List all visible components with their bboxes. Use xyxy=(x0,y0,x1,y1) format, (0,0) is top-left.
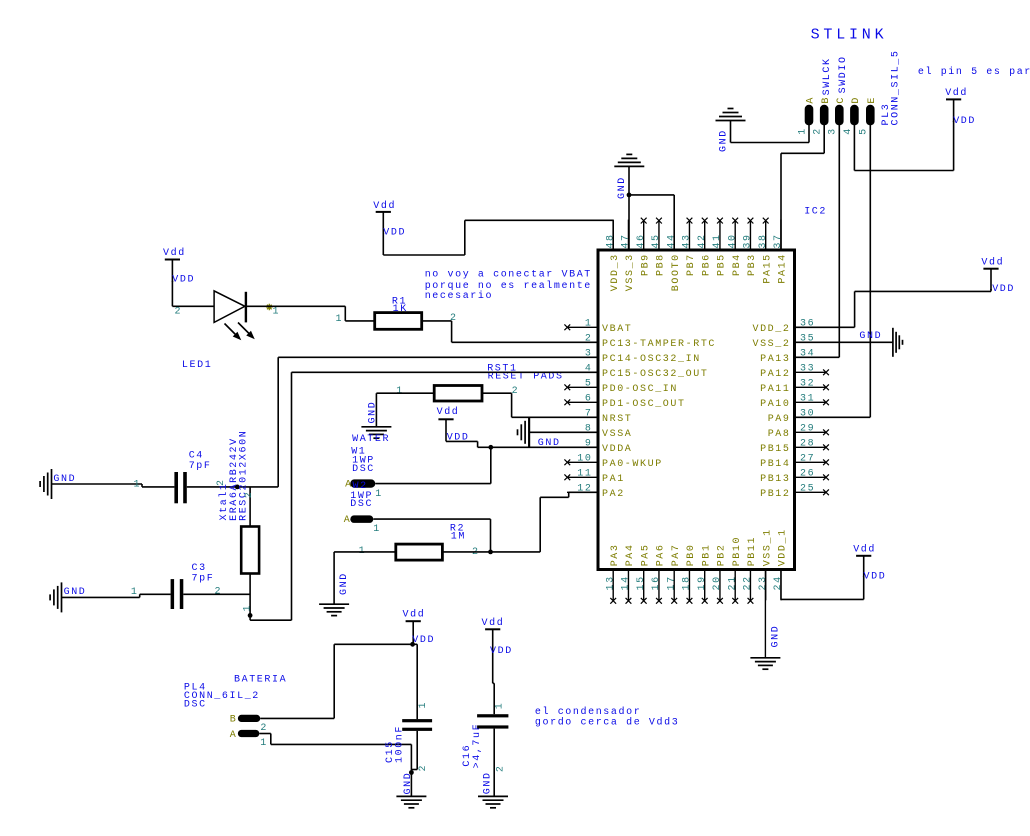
svg-text:RESC2012X60N: RESC2012X60N xyxy=(238,430,249,521)
svg-text:B: B xyxy=(821,96,832,104)
svg-text:PA8: PA8 xyxy=(768,429,791,440)
jumper W2 labels xyxy=(350,491,373,510)
wire Vdd node to C15 pin1 xyxy=(413,644,418,719)
junction C15 top xyxy=(410,642,415,647)
svg-text:STLINK: STLINK xyxy=(811,27,888,44)
svg-text:VDD: VDD xyxy=(383,227,406,238)
svg-text:5: 5 xyxy=(859,127,870,135)
svg-text:no voy a conectar VBAT: no voy a conectar VBAT xyxy=(425,269,592,280)
IC2 pin 5 PD0-OSC_IN xyxy=(564,379,678,395)
IC2 pin 24 VDD_1 xyxy=(773,528,789,600)
svg-text:el condensador: el condensador xyxy=(535,706,641,718)
svg-text:GND: GND xyxy=(482,771,493,794)
power Vdd (VDDA) xyxy=(437,406,470,444)
svg-text:24: 24 xyxy=(773,575,784,590)
svg-text:32: 32 xyxy=(800,379,815,390)
IC2 pin 9 VDDA xyxy=(567,439,632,455)
svg-text:VDD_1: VDD_1 xyxy=(778,528,789,566)
PL3 pad 4 (D) xyxy=(843,96,862,135)
crystal pin1 wire xyxy=(242,574,253,621)
svg-text:VDD: VDD xyxy=(953,116,976,127)
svg-text:1: 1 xyxy=(585,319,593,330)
svg-text:14: 14 xyxy=(621,575,632,590)
C15 pin2 wire xyxy=(411,731,429,772)
svg-text:Vdd: Vdd xyxy=(482,617,505,629)
wire C3 pin2 to crystal pin1 xyxy=(183,593,250,595)
svg-text:VDD_2: VDD_2 xyxy=(752,324,790,335)
svg-text:C4: C4 xyxy=(189,450,204,461)
svg-text:GND: GND xyxy=(53,474,76,485)
IC2 pin 16 PA6 xyxy=(651,543,667,603)
svg-text:2: 2 xyxy=(512,386,520,397)
svg-text:6: 6 xyxy=(585,394,593,405)
IC2 pin 10 PA0-WKUP xyxy=(564,454,662,470)
IC2 pin 20 PB2 xyxy=(712,543,728,603)
svg-text:el pin 5 es para: el pin 5 es para xyxy=(918,66,1030,78)
IC2 pin 13 PA3 xyxy=(605,543,621,603)
svg-text:23: 23 xyxy=(758,575,769,590)
svg-text:PB6: PB6 xyxy=(701,253,712,276)
C3 pin2 number xyxy=(215,587,223,598)
svg-text:17: 17 xyxy=(666,575,677,590)
PL4 pad B (pin2) xyxy=(230,715,268,734)
IC2 pin 27 PB14 xyxy=(760,454,829,470)
C4 pin2 number xyxy=(216,478,227,486)
capacitor C15 xyxy=(402,719,432,731)
svg-text:26: 26 xyxy=(800,469,815,480)
svg-text:VSS_1: VSS_1 xyxy=(762,528,773,566)
svg-text:PB13: PB13 xyxy=(760,474,790,485)
svg-text:GND: GND xyxy=(368,401,379,424)
svg-text:PA5: PA5 xyxy=(640,543,651,566)
R2 pin numbers xyxy=(359,546,480,558)
svg-text:2: 2 xyxy=(495,764,506,772)
svg-text:A: A xyxy=(230,730,238,741)
svg-text:PA4: PA4 xyxy=(625,543,636,566)
wire C4 pin2 to crystal node xyxy=(187,486,278,488)
jumper pad W2 xyxy=(344,515,381,535)
C4 pin1 number xyxy=(134,479,142,490)
svg-text:PA10: PA10 xyxy=(760,399,790,410)
C16 pin2 wire xyxy=(494,729,506,797)
PL3 pad 3 (C) xyxy=(828,96,847,135)
power Vdd (C15) xyxy=(403,609,436,647)
svg-text:necesario: necesario xyxy=(425,290,493,302)
IC2 pin 15 PA5 xyxy=(636,543,652,603)
svg-text:1: 1 xyxy=(373,524,381,535)
wire PL3 pin2 to IC2 PA14 (pin 37) xyxy=(781,125,824,250)
svg-text:2: 2 xyxy=(813,127,824,135)
svg-text:PB10: PB10 xyxy=(732,536,743,566)
svg-text:1: 1 xyxy=(336,314,344,325)
IC2 pin 21 PB10 xyxy=(727,536,743,604)
RST1 pin numbers xyxy=(396,386,519,397)
label STLINK xyxy=(811,27,888,44)
wire W2 pad to R2 node xyxy=(373,519,490,552)
svg-text:27: 27 xyxy=(800,454,815,465)
wire GND to pin 44 BOOT0 xyxy=(629,195,674,250)
svg-text:Vdd: Vdd xyxy=(403,609,426,621)
svg-text:PA12: PA12 xyxy=(760,369,790,380)
svg-text:7pF: 7pF xyxy=(189,461,212,472)
svg-text:GND: GND xyxy=(339,572,350,595)
svg-text:LED1: LED1 xyxy=(182,360,212,371)
svg-text:DSC: DSC xyxy=(350,499,373,510)
R1 pin numbers xyxy=(336,313,458,325)
junction C15 bottom xyxy=(409,770,414,775)
svg-text:Vdd: Vdd xyxy=(981,257,1004,269)
ground (VSSA) xyxy=(518,417,561,449)
power Vdd (VDD_3) xyxy=(373,200,406,239)
wire GND link NRST/VSSA/VDDA xyxy=(529,417,598,447)
capacitor C3 xyxy=(171,579,184,609)
IC2 pin 48 VDD_3 xyxy=(605,220,621,292)
svg-text:PB7: PB7 xyxy=(686,253,697,276)
IC2 pin 46 PB9 xyxy=(636,218,652,276)
wire RST1 pin2 to NRST pin7 xyxy=(482,393,598,417)
R2 labels xyxy=(450,523,466,542)
svg-text:48: 48 xyxy=(605,233,616,248)
power Vdd (VDD_1) xyxy=(853,544,886,583)
wire R2 pin1 to GND xyxy=(334,552,396,604)
wire GND to C4 pin1 xyxy=(52,484,175,487)
svg-text:1: 1 xyxy=(495,702,506,710)
wire R1 to IC2 pin 2 xyxy=(422,321,598,342)
svg-text:PA3: PA3 xyxy=(610,543,621,566)
wire pin36 VDD_2 to Vdd xyxy=(795,289,992,327)
IC2 pin 12 PA2 xyxy=(567,484,625,500)
svg-text:A: A xyxy=(806,96,817,104)
svg-text:1K: 1K xyxy=(393,304,408,315)
svg-text:PB0: PB0 xyxy=(686,543,697,566)
svg-text:38: 38 xyxy=(758,233,769,248)
svg-text:VSS_3: VSS_3 xyxy=(625,253,636,291)
svg-text:PB4: PB4 xyxy=(732,253,743,276)
IC2 pin 28 PB15 xyxy=(760,439,829,455)
RST1 labels xyxy=(487,363,563,382)
comment el condensador gordo xyxy=(535,706,679,729)
svg-text:BATERIA: BATERIA xyxy=(234,675,287,686)
svg-text:1: 1 xyxy=(797,127,808,135)
C3 pin1 number xyxy=(131,587,139,598)
wire Vdd to VDDA node xyxy=(446,441,491,447)
IC2 pin 23 VSS_1 xyxy=(758,528,774,600)
wire LED1 cathode to R1 xyxy=(246,306,375,321)
svg-text:Vdd: Vdd xyxy=(853,544,876,556)
wire PL4 B to C15 top xyxy=(260,644,412,718)
comment el pin 5 es para xyxy=(918,66,1030,78)
svg-text:1M: 1M xyxy=(451,532,466,543)
svg-text:43: 43 xyxy=(682,233,693,248)
svg-text:DSC: DSC xyxy=(184,700,207,711)
svg-text:21: 21 xyxy=(727,575,738,590)
svg-text:VDD: VDD xyxy=(172,275,195,286)
svg-text:16: 16 xyxy=(651,575,662,590)
IC2 reference label xyxy=(804,206,827,217)
ground (C16) xyxy=(478,771,508,807)
wire Vdd to LED1 anode xyxy=(172,281,214,306)
svg-text:VDD_3: VDD_3 xyxy=(610,253,621,291)
comment no voy a conectar VBAT xyxy=(425,269,592,302)
svg-text:GND: GND xyxy=(771,625,782,648)
wire PL3 pin3 to IC2 PA13 (pin 34) xyxy=(795,125,840,357)
svg-text:25: 25 xyxy=(800,484,815,495)
svg-text:1: 1 xyxy=(131,587,139,598)
svg-text:40: 40 xyxy=(727,233,738,248)
svg-text:1: 1 xyxy=(396,386,404,397)
C16 pin1 number xyxy=(495,702,506,710)
svg-text:1: 1 xyxy=(273,307,281,318)
svg-text:33: 33 xyxy=(800,364,815,375)
svg-text:7pF: 7pF xyxy=(192,574,215,585)
IC2 pin 47 VSS_3 xyxy=(621,220,637,292)
svg-text:BOOT0: BOOT0 xyxy=(671,253,682,291)
svg-text:44: 44 xyxy=(666,233,677,248)
IC2 pin 36 VDD_2 xyxy=(752,319,825,335)
svg-text:C: C xyxy=(836,96,847,104)
svg-text:PC15-OSC32_OUT: PC15-OSC32_OUT xyxy=(602,369,708,380)
svg-text:WATER: WATER xyxy=(352,434,390,445)
IC2 pin 45 PB8 xyxy=(651,218,667,276)
wire PL3 pin4 to Vdd xyxy=(854,121,953,171)
svg-text:GND: GND xyxy=(859,331,882,342)
svg-text:A: A xyxy=(344,515,352,526)
svg-text:IC2: IC2 xyxy=(804,206,827,217)
IC2 pin 6 PD1-OSC_OUT xyxy=(564,394,685,410)
svg-text:11: 11 xyxy=(577,469,592,480)
svg-text:PA9: PA9 xyxy=(768,414,791,425)
svg-text:PA2: PA2 xyxy=(602,489,625,500)
ground (R2) xyxy=(319,572,350,615)
PL3 pad 1 (A) xyxy=(797,96,816,135)
IC2 pin 41 PB5 xyxy=(712,218,728,276)
IC2 pin 8 VSSA xyxy=(567,424,632,440)
IC2 pin 3 PC14-OSC32_IN xyxy=(567,349,701,365)
IC2 pin 32 PA11 xyxy=(760,379,829,395)
wire Vdd to IC2 pin 48 xyxy=(383,220,613,255)
ground (RST1) xyxy=(361,401,391,439)
capacitor C16 xyxy=(477,714,508,728)
svg-text:PA1: PA1 xyxy=(602,474,625,485)
wire pin35 VSS_2 to GND xyxy=(795,341,893,343)
svg-text:37: 37 xyxy=(773,233,784,248)
C4 labels xyxy=(189,450,212,472)
IC2 pin 44 BOOT0 xyxy=(666,220,682,292)
junction VDDA node xyxy=(488,445,493,450)
svg-text:Vdd: Vdd xyxy=(437,406,460,418)
IC2 pin 35 VSS_2 xyxy=(752,334,825,350)
svg-text:PA14: PA14 xyxy=(778,253,789,283)
IC2 pin 40 PB4 xyxy=(727,218,743,276)
svg-text:E: E xyxy=(867,96,878,104)
svg-text:19: 19 xyxy=(697,575,708,590)
IC2 pin 14 PA4 xyxy=(621,543,637,603)
svg-text:PB15: PB15 xyxy=(760,444,790,455)
svg-text:GND: GND xyxy=(403,772,414,795)
svg-text:gordo cerca de Vdd3: gordo cerca de Vdd3 xyxy=(535,716,679,728)
net label SWLCK xyxy=(822,57,833,95)
svg-text:18: 18 xyxy=(682,575,693,590)
ground (C3) xyxy=(50,582,86,612)
svg-text:PB8: PB8 xyxy=(656,253,667,276)
svg-text:>4,7uF: >4,7uF xyxy=(472,723,483,769)
svg-text:15: 15 xyxy=(636,575,647,590)
svg-text:PB14: PB14 xyxy=(760,459,790,470)
power Vdd (C16) xyxy=(482,617,513,683)
IC2 pin 39 PB3 xyxy=(743,218,759,276)
crystal Xtal1 xyxy=(241,527,259,574)
svg-text:100nF: 100nF xyxy=(395,725,406,763)
IC2 pin 31 PA10 xyxy=(760,394,829,410)
junction at GND/BOOT0 xyxy=(627,193,632,198)
svg-text:PD0-OSC_IN: PD0-OSC_IN xyxy=(602,384,678,395)
IC2 pin 11 PA1 xyxy=(564,469,624,485)
wire W1 pad to VDDA node xyxy=(375,447,491,483)
IC2 pin 33 PA12 xyxy=(760,364,829,380)
svg-text:2: 2 xyxy=(418,764,429,772)
svg-text:13: 13 xyxy=(605,575,616,590)
svg-text:VDD: VDD xyxy=(992,284,1015,295)
svg-text:2: 2 xyxy=(175,307,183,318)
svg-text:1: 1 xyxy=(242,604,253,612)
svg-text:PC13-TAMPER-RTC: PC13-TAMPER-RTC xyxy=(602,339,716,350)
capacitor C4 xyxy=(174,472,186,503)
ground (VSS_2) xyxy=(859,328,902,357)
svg-text:PB9: PB9 xyxy=(640,253,651,276)
svg-text:PA11: PA11 xyxy=(760,384,790,395)
C3 labels xyxy=(192,563,215,585)
wire RST1 pin1 to GND xyxy=(376,393,434,427)
svg-text:D: D xyxy=(851,96,862,104)
ground (C4) xyxy=(40,469,76,499)
svg-text:GND: GND xyxy=(64,587,87,598)
IC2 pin 29 PA8 xyxy=(768,424,829,440)
svg-text:PD1-OSC_OUT: PD1-OSC_OUT xyxy=(602,399,686,410)
wire GND to pin 47 xyxy=(628,166,630,250)
connector PL3 CONN_SIL_5 labels xyxy=(881,49,902,125)
IC2 pin 22 PB11 xyxy=(743,536,759,604)
wire pin24 VDD_1 to Vdd xyxy=(781,570,864,600)
ground (VSS_3/BOOT0) xyxy=(614,154,644,199)
svg-text:46: 46 xyxy=(636,233,647,248)
IC2 pin 30 PA9 xyxy=(768,409,826,425)
svg-text:2: 2 xyxy=(260,723,268,734)
IC2 pin 38 PA15 xyxy=(758,218,774,284)
svg-text:Vdd: Vdd xyxy=(163,247,186,259)
resistor R1 xyxy=(375,313,422,330)
svg-text:10: 10 xyxy=(577,454,592,465)
svg-text:PB3: PB3 xyxy=(747,253,758,276)
power Vdd (VDD_2) xyxy=(981,257,1015,295)
svg-text:PA0-WKUP: PA0-WKUP xyxy=(602,459,663,470)
IC2 pin 4 PC15-OSC32_OUT xyxy=(567,364,708,380)
svg-text:PA6: PA6 xyxy=(656,543,667,566)
LED1 label xyxy=(182,360,212,371)
svg-text:1: 1 xyxy=(134,479,142,490)
svg-text:CONN_SIL_5: CONN_SIL_5 xyxy=(891,49,902,125)
svg-text:RESET PADS: RESET PADS xyxy=(488,372,564,383)
LED1 pin 2 number xyxy=(175,307,183,318)
IC2 pin 19 PB1 xyxy=(697,543,713,603)
svg-text:41: 41 xyxy=(712,233,723,248)
ground (PL3 pin1) xyxy=(716,109,746,153)
wire PC14 pin3 to crystal top xyxy=(278,357,598,487)
IC2 pin 34 PA13 xyxy=(760,349,826,365)
svg-text:GND: GND xyxy=(617,176,628,199)
svg-text:PC14-OSC32_IN: PC14-OSC32_IN xyxy=(602,354,701,365)
jumper W1 labels xyxy=(351,434,390,475)
C15 pin1 number xyxy=(418,701,429,709)
svg-text:VSSA: VSSA xyxy=(602,429,632,440)
svg-text:2: 2 xyxy=(215,587,223,598)
svg-text:PA13: PA13 xyxy=(760,354,790,365)
svg-text:PB5: PB5 xyxy=(717,253,728,276)
svg-text:2: 2 xyxy=(244,491,255,499)
IC2 pin 26 PB13 xyxy=(760,469,829,485)
resistor RST1 (reset pads) xyxy=(434,386,482,402)
svg-text:PB1: PB1 xyxy=(701,543,712,566)
IC2 pin 17 PA7 xyxy=(666,543,682,603)
power Vdd (LED supply) xyxy=(163,247,195,285)
IC2 pin 18 PB0 xyxy=(682,543,698,603)
svg-text:PA7: PA7 xyxy=(671,543,682,566)
svg-text:28: 28 xyxy=(800,439,815,450)
wire PL3 pin1 to GND xyxy=(731,121,810,143)
IC2 pin 1 VBAT xyxy=(564,319,632,335)
C16 labels xyxy=(462,723,483,769)
svg-text:PB12: PB12 xyxy=(760,489,790,500)
svg-text:29: 29 xyxy=(800,424,815,435)
svg-text:VDD: VDD xyxy=(864,571,887,582)
svg-text:Vdd: Vdd xyxy=(945,87,968,99)
IC2 pin 2 PC13-TAMPER-RTC xyxy=(567,334,716,350)
PL3 pad 5 (E) xyxy=(859,96,878,135)
svg-text:31: 31 xyxy=(800,394,815,405)
svg-text:SWDIO: SWDIO xyxy=(838,55,849,93)
connector PL4 labels xyxy=(184,675,287,711)
C15 labels xyxy=(385,725,406,763)
svg-text:45: 45 xyxy=(651,233,662,248)
svg-text:GND: GND xyxy=(718,129,729,152)
R1 labels R1 / 1K xyxy=(392,296,408,315)
svg-text:4: 4 xyxy=(843,127,854,135)
jumper pad W1 xyxy=(345,479,383,499)
svg-text:1: 1 xyxy=(418,701,429,709)
crystal Xtal1 labels xyxy=(218,430,249,521)
svg-text:47: 47 xyxy=(621,233,632,248)
svg-text:SWLCK: SWLCK xyxy=(822,57,833,95)
svg-text:1: 1 xyxy=(260,738,268,749)
svg-text:5: 5 xyxy=(585,379,593,390)
IC2 pin 25 PB12 xyxy=(760,484,829,500)
svg-text:1: 1 xyxy=(375,489,383,500)
ground (C15) xyxy=(396,772,426,808)
junction crystal top node xyxy=(235,485,240,490)
svg-text:39: 39 xyxy=(743,233,754,248)
IC2 pin 7 NRST xyxy=(567,409,632,425)
resistor R2 xyxy=(396,544,443,560)
PL4 pad A (pin1) xyxy=(230,730,268,749)
junction crystal bottom xyxy=(248,613,253,618)
ground (VSS_1) xyxy=(750,625,781,670)
svg-text:NRST: NRST xyxy=(602,414,632,425)
wire GND to C3 pin1 xyxy=(62,594,171,597)
junction R2/W2 node xyxy=(488,550,493,555)
wire PC15 pin4 to crystal bottom xyxy=(250,372,598,620)
svg-text:PA15: PA15 xyxy=(762,253,773,283)
IC2 pin 43 PB7 xyxy=(682,218,698,276)
net label SWDIO xyxy=(838,55,849,93)
